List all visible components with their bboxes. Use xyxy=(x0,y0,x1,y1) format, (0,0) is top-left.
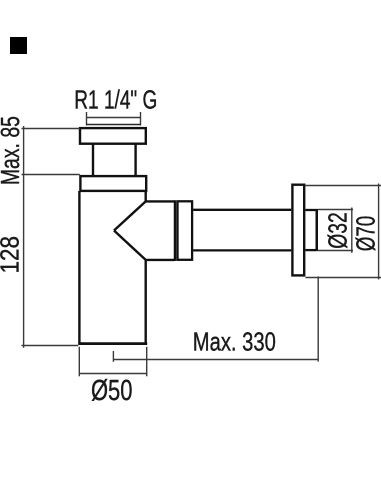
svg-text:R1 1/4" G: R1 1/4" G xyxy=(74,85,157,115)
svg-text:Ø70: Ø70 xyxy=(353,216,381,252)
top flange xyxy=(80,128,146,144)
body xyxy=(78,191,147,344)
svg-text:Max. 330: Max. 330 xyxy=(193,327,276,357)
dimension Ø50 xyxy=(79,347,148,377)
dimension Max. 330 xyxy=(113,276,318,361)
lower flange xyxy=(80,176,146,191)
dimension Max. 85 / 128 vertical line xyxy=(22,126,80,348)
pipe stub xyxy=(305,209,316,251)
label Max. 85 xyxy=(0,116,25,185)
dimension Ø32 xyxy=(318,208,353,253)
label Max. 330 xyxy=(193,327,276,357)
svg-text:Ø50: Ø50 xyxy=(91,374,133,406)
label Ø32 xyxy=(325,212,353,249)
svg-text:128: 128 xyxy=(0,236,25,274)
label Ø70 xyxy=(353,216,381,252)
outlet pipe xyxy=(193,210,291,251)
mitred elbow xyxy=(114,200,175,261)
wall flange xyxy=(292,185,304,276)
label Ø50 xyxy=(91,374,133,406)
inlet thread pipe rim xyxy=(86,124,141,126)
svg-text:Ø32: Ø32 xyxy=(325,212,353,249)
neck xyxy=(93,144,136,176)
label R1 1/4" G xyxy=(74,85,157,115)
dimension Ø70 xyxy=(305,184,381,280)
label 128 xyxy=(0,236,25,274)
svg-text:Max. 85: Max. 85 xyxy=(0,116,25,185)
compression nut xyxy=(178,201,193,259)
watermark logo square xyxy=(10,37,27,54)
dimension line R1 1/4" G xyxy=(87,112,141,126)
